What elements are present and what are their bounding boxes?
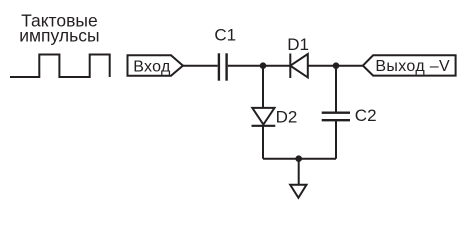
wire node A down to D2	[262, 66, 264, 109]
wire D1 to node B	[308, 65, 336, 67]
svg-text:импульсы: импульсы	[19, 26, 99, 46]
ground symbol	[290, 185, 306, 198]
svg-text:C2: C2	[355, 106, 377, 125]
bottom rail wire	[263, 158, 336, 160]
diode D1 (cathode bar)	[289, 54, 291, 79]
svg-text:D2: D2	[276, 107, 298, 126]
label D2	[276, 107, 298, 126]
wire D2 to bottom rail	[262, 126, 264, 159]
capacitor C2	[322, 113, 350, 121]
svg-text:C1: C1	[214, 26, 236, 45]
svg-text:D1: D1	[287, 35, 309, 54]
svg-text:Выход –V: Выход –V	[375, 58, 450, 75]
wire node B to output flag	[336, 65, 363, 67]
bottom rail junction dot	[295, 155, 302, 162]
wire node A to D1	[263, 65, 290, 67]
diode D2 (triangle)	[252, 108, 274, 125]
label C1	[214, 26, 236, 45]
input flag "Вход"	[128, 55, 183, 76]
wire C1 to node A	[228, 65, 263, 67]
label C2	[355, 106, 377, 125]
diode D1 (triangle)	[290, 54, 308, 77]
label "Тактовые импульсы" (clock pulses)	[19, 11, 99, 46]
output flag "Выход –V"	[363, 55, 456, 75]
wire node B down to C2	[335, 66, 337, 113]
node B junction dot	[333, 62, 340, 69]
svg-text:Вход: Вход	[133, 58, 171, 75]
wire C2 to bottom rail	[335, 120, 337, 159]
node A junction dot	[260, 62, 267, 69]
clock waveform	[10, 55, 110, 78]
ground stem wire	[298, 159, 300, 185]
capacitor C1	[219, 53, 227, 80]
label D1	[287, 35, 309, 54]
wire input flag to C1	[183, 65, 218, 67]
diode D2 (cathode bar)	[252, 125, 276, 127]
